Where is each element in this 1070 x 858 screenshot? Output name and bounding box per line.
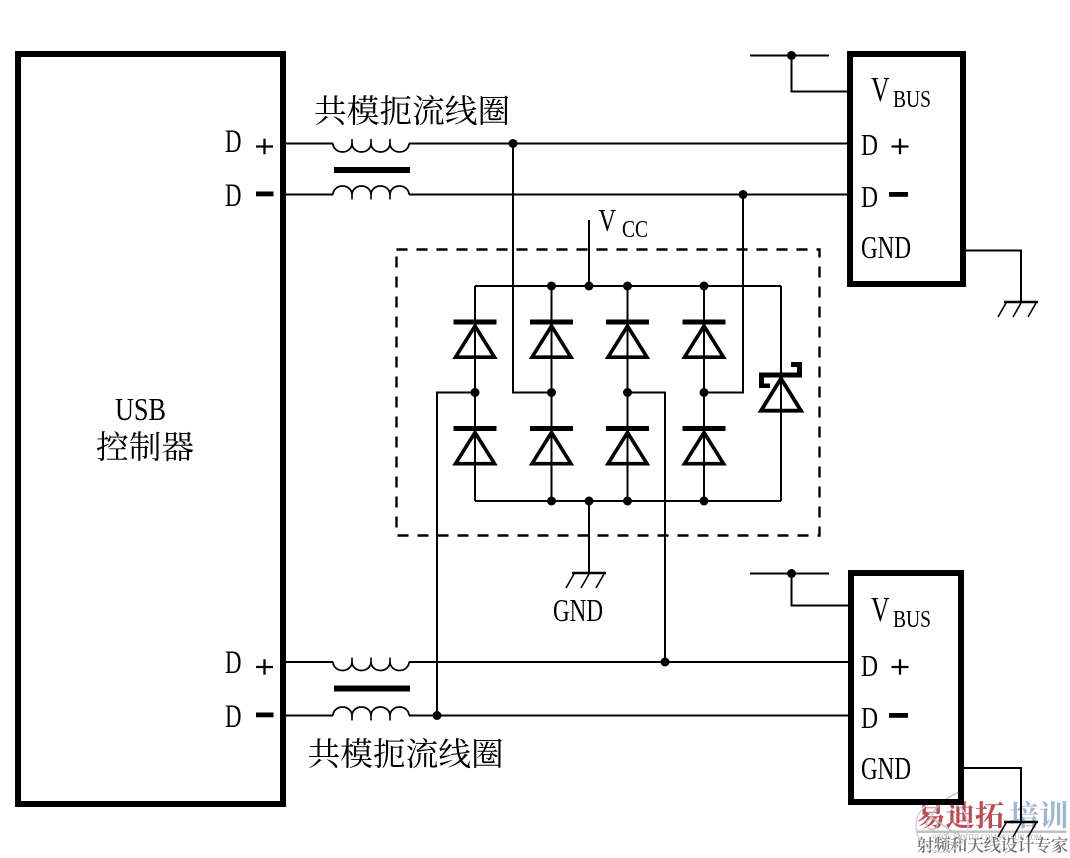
wire: col3 mid out to bottom D+: [628, 393, 666, 663]
wire: array column 1: [474, 286, 476, 501]
node: bottom D- junction: [433, 711, 442, 720]
common-mode choke L2 top winding: [333, 662, 409, 671]
svg-text:GND: GND: [861, 229, 911, 265]
watermark slogan 射频和天线设计专家 (gray): [917, 837, 1068, 853]
wire: top D- tap down to col4 mid: [704, 195, 743, 393]
node: J1 VBUS junction: [787, 51, 796, 60]
node: mid junction col4: [700, 388, 709, 397]
pin label VBUS (J1): [871, 70, 931, 113]
diode D4 (upper, column 4): [683, 320, 726, 358]
node: bottom rail junction col2: [547, 497, 556, 506]
ground symbol at J1: [998, 302, 1038, 317]
diode D1 (upper, column 1): [454, 320, 497, 358]
wire: array column 3: [627, 286, 629, 501]
label bottom choke 共模扼流线圈: [309, 738, 502, 768]
node: top rail junction Vcc: [585, 282, 594, 291]
label USB (controller): [115, 391, 166, 427]
wire: bottom D- net from USB controller to J2: [286, 715, 848, 717]
svg-text:D: D: [225, 124, 242, 160]
watermark url small text: [932, 832, 1042, 842]
svg-text:BUS: BUS: [893, 87, 931, 113]
pin label D- (J1): [861, 179, 908, 214]
svg-text:V: V: [599, 202, 617, 238]
wire: array top rail: [475, 285, 781, 287]
svg-text:D: D: [861, 127, 878, 162]
svg-text:D: D: [225, 699, 242, 735]
node: top rail junction col3: [623, 282, 632, 291]
common-mode choke L2 bottom winding: [333, 707, 409, 716]
pin label D- (controller top): [225, 178, 274, 214]
node: mid junction col3: [623, 388, 632, 397]
net label Vcc: [599, 202, 649, 243]
wire: top D- net from USB controller to J1: [286, 194, 847, 196]
pin label GND (J2): [861, 750, 911, 786]
wire: array column 4: [703, 286, 705, 501]
wire: array GND lead to earth: [588, 501, 590, 572]
node: top rail junction col4: [700, 282, 709, 291]
zener diode Z1: [759, 362, 802, 411]
ESD protection array dashed box U2: [397, 250, 820, 536]
svg-text:D: D: [225, 178, 242, 214]
diode D8 (lower, column 4): [683, 426, 726, 464]
svg-text:GND: GND: [553, 592, 603, 628]
common-mode choke L1 bottom winding: [333, 186, 409, 195]
watermark signature swirl: [916, 791, 968, 852]
node: top D- junction: [739, 190, 748, 199]
diode D7 (lower, column 3): [606, 426, 649, 464]
svg-text:CC: CC: [622, 217, 648, 243]
wire: J2 VBUS drop into pin: [792, 574, 849, 606]
wire: Vcc lead into array: [588, 220, 590, 286]
common-mode choke L1 top winding: [333, 144, 409, 153]
node: mid junction col2: [547, 388, 556, 397]
pin label VBUS (J2): [871, 590, 931, 633]
pin label GND (J1): [861, 229, 911, 265]
diode D6 (lower, column 2): [530, 426, 573, 464]
label top choke 共模扼流线圈: [315, 95, 508, 125]
node: mid junction col1: [471, 388, 480, 397]
svg-text:D: D: [861, 648, 878, 683]
pin label D- (J2): [861, 700, 908, 735]
wire: J1 VBUS stub: [750, 55, 829, 57]
ground symbol at J2: [998, 822, 1038, 837]
node: top D+ junction: [509, 139, 518, 148]
bottom right USB port box J2: [851, 573, 961, 802]
node: bottom D+ junction: [661, 658, 670, 667]
pin label D+ (J1): [861, 127, 909, 162]
diode D2 (upper, column 2): [530, 320, 573, 358]
diode D3 (upper, column 3): [606, 320, 649, 358]
wire: array bottom rail: [475, 500, 781, 502]
wire: bottom D+ net from USB controller to J2: [286, 661, 848, 663]
pin label D+ (controller top): [225, 124, 273, 160]
svg-text:GND: GND: [861, 750, 911, 786]
ground symbol at array GND: [566, 573, 606, 588]
svg-text:D: D: [225, 645, 242, 681]
pin label D+ (J2): [861, 648, 909, 683]
svg-text:D: D: [861, 700, 878, 735]
wire: J2 VBUS stub: [750, 573, 829, 575]
diode D5 (lower, column 1): [454, 426, 497, 464]
svg-text:D: D: [861, 179, 878, 214]
wire: top D+ tap down to col2 mid: [513, 144, 552, 393]
pin label D- (controller bottom): [225, 699, 274, 735]
wire: array column 2: [551, 286, 553, 501]
watermark logo 培训 (blue): [1010, 801, 1067, 829]
node: bottom rail junction col4: [700, 497, 709, 506]
svg-text:V: V: [871, 590, 890, 629]
top right USB port box J1: [850, 54, 963, 284]
wire: J1 VBUS drop into pin: [792, 56, 848, 92]
watermark underline: [917, 831, 1067, 833]
common-mode choke L2 core bar: [334, 686, 410, 692]
svg-text:V: V: [871, 70, 890, 109]
label 控制器: [97, 431, 193, 461]
node: J2 VBUS junction: [787, 569, 796, 578]
wire: J2 GND to earth: [964, 768, 1021, 821]
node: bottom rail junction col3: [623, 497, 632, 506]
pin label D+ (controller bottom): [225, 645, 273, 681]
wire: J1 GND to earth: [966, 251, 1021, 302]
watermark logo 易迪拓 (red): [918, 801, 1004, 829]
node: bottom rail junction GND: [585, 497, 594, 506]
common-mode choke L1 core bar: [334, 167, 410, 173]
net label GND (array): [553, 592, 603, 628]
USB controller box U1: [18, 54, 283, 804]
wire: top D+ net from USB controller to J1: [286, 143, 847, 145]
wire: array zener column: [780, 286, 782, 501]
node: top rail junction col2: [547, 282, 556, 291]
svg-text:USB: USB: [115, 391, 166, 427]
svg-text:BUS: BUS: [893, 607, 931, 633]
wire: col1 mid out to bottom D-: [437, 393, 475, 716]
